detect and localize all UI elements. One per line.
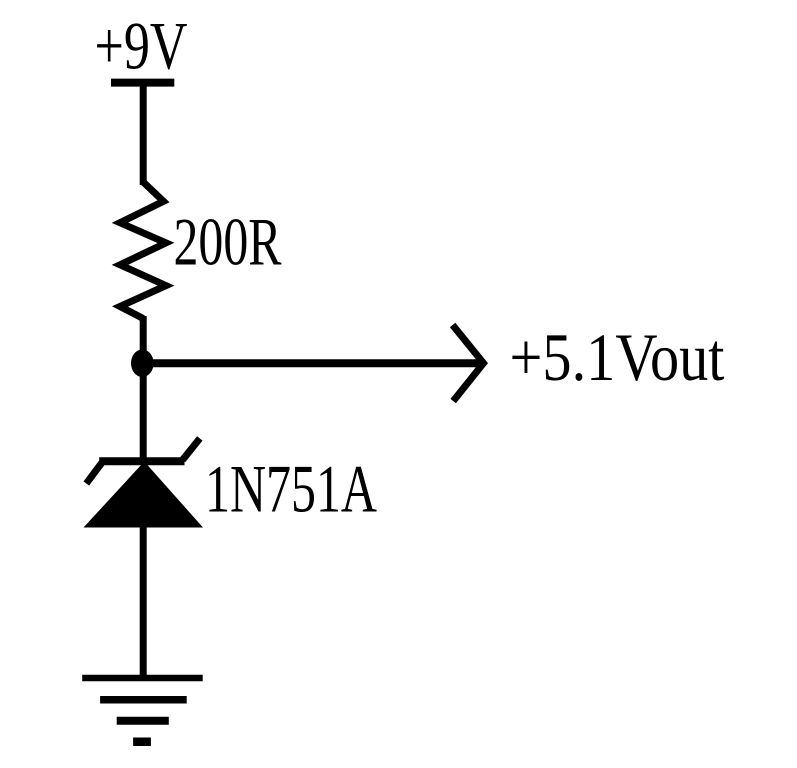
svg-text:1N751A: 1N751A — [205, 451, 377, 527]
svg-text:+9V: +9V — [95, 8, 188, 84]
svg-text:+5.1Vout: +5.1Vout — [510, 319, 725, 395]
svg-text:200R: 200R — [174, 203, 282, 279]
